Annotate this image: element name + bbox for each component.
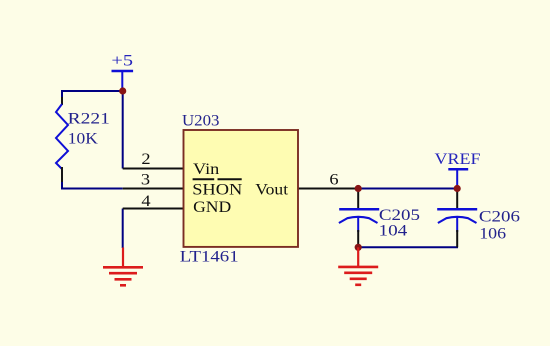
svg-text:LT1461: LT1461 [180,247,239,265]
svg-text:GND: GND [193,198,231,216]
power port +5 bar [112,70,134,73]
resistor R221 zigzag [56,104,68,169]
capacitor C205 bottom pin [357,230,359,247]
pin 2 [123,168,184,170]
wire: Vout node to VREF node [358,188,457,190]
capacitor C206 top plate [437,208,477,211]
capacitor C205 top pin [357,189,359,209]
svg-text:Vin: Vin [193,160,220,178]
ground under pin 4 [103,248,143,286]
ground at C205/C206 bottom node [338,247,378,284]
svg-text:+5: +5 [111,52,133,69]
pin 6 [298,188,358,190]
junction at Vout/C205 node [355,185,362,192]
overbar of SHON [193,178,215,180]
junction at VREF node [454,185,461,192]
svg-text:4: 4 [141,192,151,210]
power port +5 stem [121,71,123,91]
power port VREF stem [456,169,458,188]
pin 4 [123,208,184,210]
wire: resistor top to +5 junction [62,90,123,92]
svg-text:VREF: VREF [435,150,481,168]
junction at C205 bottom node [355,244,362,251]
capacitor C206 curved plate [438,217,477,223]
capacitor C205 curved plate [339,217,378,223]
svg-text:10K: 10K [68,129,98,147]
capacitor C206 top pin [456,189,458,209]
capacitor C205 top plate [339,208,379,211]
svg-text:3: 3 [141,171,150,189]
svg-text:2: 2 [141,150,150,168]
junction at +5 node [119,87,126,94]
wire: pin 4 down to ground [122,209,124,249]
wire: C205 bottom node to C206 bottom [358,246,458,248]
svg-text:C206: C206 [479,207,520,225]
svg-text:Vout: Vout [255,180,288,198]
wire: resistor bottom to pin 3 [62,181,123,189]
resistor R221 bottom pin [61,167,63,182]
svg-text:104: 104 [379,221,408,239]
wire: +5 junction down to pin 2 [122,91,124,169]
resistor R221 top pin [61,97,63,105]
svg-text:R221: R221 [68,109,110,127]
svg-text:SHON: SHON [192,180,243,198]
svg-text:6: 6 [329,171,339,189]
power port VREF bar [448,168,468,171]
svg-text:U203: U203 [182,111,219,129]
capacitor C206 lower stub [456,217,458,233]
wire: resistor top lead [61,90,63,97]
capacitor C205 lower stub [357,217,359,233]
pin 3 [123,188,184,190]
svg-text:106: 106 [479,225,506,243]
IC U203 body [184,130,299,247]
capacitor C206 bottom pin [456,230,458,247]
